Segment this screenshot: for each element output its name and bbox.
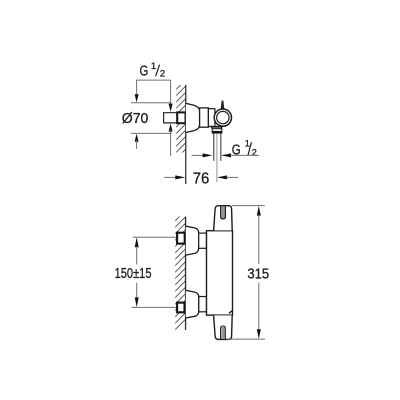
svg-text:150±15: 150±15 bbox=[115, 266, 152, 282]
S-union neck, bottom bbox=[199, 297, 207, 312]
extension line from bottom inlet center bbox=[131, 306, 177, 308]
escutcheon bell flange (top drawing) bbox=[186, 103, 200, 132]
label G 1/2 (bottom-right of valve) bbox=[232, 139, 257, 159]
fitting square in wall, bottom inlet bbox=[177, 303, 184, 313]
top handle grip slot bbox=[222, 206, 225, 218]
Ø70 top arrow (points down) bbox=[136, 80, 138, 96]
dimension 76 bbox=[164, 176, 176, 178]
dimension 150±15 bbox=[135, 237, 139, 247]
svg-text:315: 315 bbox=[247, 266, 269, 282]
top handle bbox=[214, 206, 233, 231]
svg-text:2: 2 bbox=[160, 68, 165, 79]
arrow down to pipe top edge bbox=[169, 104, 173, 112]
svg-text:76: 76 bbox=[193, 171, 210, 188]
S-union escutcheon bell, top bbox=[186, 226, 199, 255]
valve body section 2 bbox=[208, 109, 215, 127]
S-union neck, top bbox=[199, 233, 207, 248]
knob inner circle bbox=[217, 111, 229, 123]
inlet pipe stub through wall bbox=[164, 113, 177, 123]
arrow up to pipe bottom edge bbox=[169, 123, 173, 131]
dimension Ø70: top extension line bbox=[131, 102, 172, 104]
mixer body bbox=[207, 231, 233, 315]
G 1/2 arrows onto outlet pipe bbox=[192, 154, 204, 156]
svg-text:G: G bbox=[140, 63, 149, 80]
wall face line (top drawing), continues down as 76-dim extension bbox=[185, 85, 187, 184]
svg-text:Ø70: Ø70 bbox=[122, 111, 149, 127]
valve body section 1 bbox=[200, 108, 209, 127]
dimension 315: line + arrows + text bbox=[257, 206, 261, 216]
label G 1/2 (top) bbox=[140, 61, 166, 80]
leader shelf line of G 1/2 (top) bbox=[136, 79, 170, 81]
bottom handle bbox=[214, 315, 233, 339]
outlet pipe (G 1/2 down) bbox=[213, 133, 215, 161]
chamfer tick at body bottom right bbox=[229, 311, 232, 314]
svg-text:1: 1 bbox=[245, 139, 250, 150]
wall hatching (top drawing) bbox=[170, 74, 192, 165]
fitting square in wall, top inlet bbox=[177, 233, 185, 244]
outlet pipe centerline bbox=[216, 133, 218, 182]
svg-text:2: 2 bbox=[252, 148, 257, 159]
Ø70 bottom arrow (points up) bbox=[135, 134, 139, 142]
valve bottom edge bbox=[211, 126, 223, 128]
outlet transition trapezoid bbox=[212, 127, 223, 129]
dimension 315: extension lines bbox=[232, 205, 265, 207]
outlet nut bbox=[212, 129, 222, 133]
S-union escutcheon bell, bottom bbox=[186, 290, 199, 318]
temperature pin on top of knob bbox=[221, 101, 224, 109]
dimension Ø70: bottom extension line bbox=[131, 132, 172, 134]
tail line below pipe arrow bbox=[170, 130, 172, 156]
bottom handle grip slot bbox=[222, 327, 225, 339]
knob outer circle bbox=[214, 109, 231, 126]
wall hatching (bottom drawing) bbox=[168, 204, 192, 337]
svg-text:1: 1 bbox=[151, 61, 156, 72]
svg-text:G: G bbox=[232, 142, 241, 159]
leader drop line to pipe top bbox=[170, 80, 172, 105]
pipe fitting square in wall (top drawing) bbox=[177, 112, 185, 123]
wall face line (bottom drawing) bbox=[185, 217, 187, 331]
extension line from top inlet center bbox=[133, 236, 177, 238]
